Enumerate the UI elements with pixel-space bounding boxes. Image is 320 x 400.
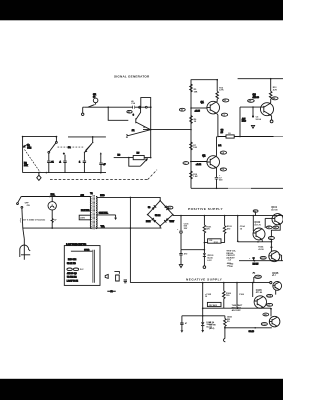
wire: amp bias chain vertical: [190, 80, 192, 189]
diode D102: [201, 316, 214, 330]
transistor Q1A (oscillator): [136, 107, 151, 130]
svg-text:4.7K: 4.7K: [219, 89, 224, 92]
svg-text:35V: 35V: [184, 228, 188, 230]
wire: Q103 collector stub: [270, 242, 272, 251]
label Q101: [271, 206, 278, 211]
svg-text:POSITIVE SUPPLY: POSITIVE SUPPLY: [188, 207, 223, 211]
chassis ground (diamond): [37, 173, 41, 181]
regulator note text: [226, 250, 236, 267]
svg-text:417-80: 417-80: [253, 96, 260, 99]
oval label 2N: [248, 99, 255, 102]
oval label C2b: [267, 303, 273, 306]
resistor R13 (Q3 collector): [269, 79, 277, 103]
wire: jack to osc input: [84, 106, 151, 108]
wire: osc out to amp: [143, 129, 191, 131]
label 117V AC: [20, 218, 54, 223]
capacitor C102: [179, 250, 188, 265]
svg-text:RED: RED: [100, 195, 105, 197]
svg-text:ADJ DIFF: ADJ DIFF: [232, 309, 242, 312]
oval label 64: [272, 97, 278, 100]
wire: feedback loop: [141, 98, 151, 108]
svg-text:230V: 230V: [80, 218, 85, 220]
chassis symbol (open triangle) under C102: [179, 265, 182, 268]
transistor Q102: [253, 228, 265, 240]
node C junction: [150, 129, 152, 131]
node P11 junction: [271, 260, 273, 262]
label R107: [209, 321, 216, 330]
svg-text:+1.32: +1.32: [196, 164, 202, 166]
wire: Q105 collector: [252, 283, 254, 297]
oval label 56b: [266, 226, 272, 229]
wire: emitter return diagonal: [126, 130, 151, 138]
section boundary (dashed): [50, 170, 157, 180]
switch S1B pole: [92, 137, 93, 143]
svg-text:10K: 10K: [24, 165, 28, 167]
bottom letterbox bar: [0, 379, 283, 400]
capacitor C105: [203, 283, 212, 309]
wire: left vertical: [22, 136, 24, 173]
svg-text:56-562 D2: 56-562 D2: [67, 276, 77, 278]
resistor R101: [203, 216, 212, 250]
wire: range net top rail right: [68, 136, 106, 138]
switch SW1: [17, 197, 31, 209]
node N9 junction: [270, 308, 272, 310]
node U junction: [51, 227, 53, 229]
node N6 junction: [237, 307, 239, 309]
node N8 junction: [254, 327, 256, 329]
svg-text:57-27 AB: 57-27 AB: [67, 262, 76, 265]
capacitor C1A: [47, 161, 50, 173]
parts box row 3 (ovals): [67, 268, 84, 271]
node O junction: [217, 136, 219, 138]
oval label C13: [260, 256, 266, 259]
wire: Q1 base: [191, 107, 207, 109]
resistor R5: [190, 84, 198, 93]
node V junction: [130, 197, 132, 199]
node P2 junction: [204, 215, 206, 217]
oval label 17: [183, 162, 189, 165]
wire: Q104 emitter to node N9: [270, 308, 272, 316]
output lead hook: [223, 338, 225, 342]
wire: regulator output rail: [238, 241, 272, 243]
wire: contact drop 4: [100, 152, 102, 162]
svg-text:ON: ON: [27, 205, 31, 207]
svg-text:600Ω: 600Ω: [84, 249, 89, 251]
node Q junction: [216, 188, 218, 190]
svg-text:BLK-YEL: BLK-YEL: [81, 210, 91, 212]
resistor R108: [224, 316, 233, 339]
resistor R14 (lamp dropping): [51, 210, 57, 228]
node S junction: [252, 106, 254, 108]
svg-text:417-70: 417-70: [254, 224, 261, 227]
chassis symbol (open triangle): [251, 125, 254, 128]
node P6 junction: [204, 242, 206, 244]
node A junction: [107, 106, 109, 108]
svg-text:1.8K: 1.8K: [193, 176, 198, 178]
wire: zener common: [181, 249, 204, 251]
node P8 junction: [237, 240, 239, 242]
wire: input branch down: [108, 107, 128, 120]
capacitor C101: [177, 216, 189, 250]
node P7 junction: [204, 249, 206, 251]
zener diode ZD101: [203, 250, 215, 266]
svg-text:6.2V: 6.2V: [207, 260, 212, 262]
wire: lower rail: [182, 315, 225, 317]
wire: R8 feedback: [114, 157, 129, 159]
switch S1A contact: [48, 151, 50, 153]
transistor Q1: [207, 101, 220, 114]
wire: positive rail: [173, 215, 283, 217]
svg-text:+7.85: +7.85: [195, 110, 201, 112]
resistor R106: [223, 283, 232, 309]
output jack J1 (open circle terminal): [82, 107, 85, 115]
bridge diode 4: [164, 218, 169, 223]
icon: wafer: [105, 274, 108, 278]
icon: stack: [124, 280, 127, 283]
transformer T1 core: [93, 195, 94, 229]
switch S1B blade: [85, 143, 92, 152]
oval label C11: [261, 323, 267, 326]
capacitor C108 tick: [253, 272, 262, 282]
svg-text:18K: 18K: [194, 91, 198, 93]
transistor Q103: [269, 251, 280, 262]
svg-text:R-C: R-C: [80, 269, 84, 271]
node P4 junction: [237, 215, 239, 217]
node N2 junction: [223, 282, 225, 284]
wire: Q3 base drop: [239, 107, 241, 136]
transistor Q104: [273, 282, 282, 295]
wire: contact drop 2: [64, 155, 66, 161]
wire: -15V output rail: [225, 327, 272, 329]
potentiometer R9: [129, 156, 151, 167]
wire: range net bottom rail: [23, 172, 106, 174]
svg-text:LAST USED NOT US: LAST USED NOT US: [66, 243, 87, 246]
wire: bottom rail (signal out): [191, 187, 283, 189]
capacitor C1D: [99, 163, 102, 173]
svg-text:150 5W: 150 5W: [209, 325, 216, 327]
potentiometer R1 wiper arrow: [23, 144, 28, 148]
node P10 junction: [254, 260, 256, 262]
capacitor C7: [215, 175, 223, 182]
wire: Q2 emitter down: [216, 168, 218, 189]
svg-text:C2B: C2B: [256, 277, 261, 279]
node H junction: [46, 172, 48, 174]
svg-text:117 V. 50/60 CYCLE AC: 117 V. 50/60 CYCLE AC: [23, 219, 46, 222]
svg-text:(ADJ): (ADJ): [209, 327, 215, 330]
regulator note 2: [232, 304, 243, 312]
svg-text:NF-15: NF-15: [253, 263, 260, 265]
pot R102 adjust box: [208, 239, 221, 244]
label C4: [131, 100, 136, 105]
capacitor C107: [180, 316, 188, 330]
wire: top rail right: [238, 78, 283, 80]
node N10 junction: [224, 327, 226, 329]
node B junction: [150, 106, 152, 108]
terminal circle (osc node): [139, 106, 141, 108]
icon: bracket: [114, 272, 119, 281]
parts list box: [64, 246, 100, 286]
wire: adjust link: [204, 242, 224, 244]
bridge rectifier D1 frame: [148, 201, 173, 226]
capacitor C1C: [83, 161, 86, 173]
svg-text:WHT: WHT: [170, 221, 175, 223]
oval label 62: [268, 237, 274, 240]
svg-text:50-54: 50-54: [256, 118, 262, 121]
diode D103 tick: [253, 210, 258, 216]
chassis ground arrow (D102): [201, 330, 204, 333]
node K junction: [216, 79, 218, 81]
oval label C1: [221, 113, 227, 116]
svg-text:GRN-YEL: GRN-YEL: [99, 213, 109, 215]
node N1 junction: [202, 282, 204, 284]
wire: negative rail: [130, 282, 272, 284]
node F junction: [100, 172, 102, 174]
svg-text:P.U: P.U: [168, 207, 172, 209]
terminal circle (zener): [203, 266, 206, 269]
node E junction: [92, 136, 94, 138]
node N5 junction: [202, 307, 204, 309]
capacitor C103: [249, 257, 255, 260]
node M junction: [190, 129, 192, 131]
wire: top rail left: [191, 79, 218, 81]
wire: zener drop to lower rail: [202, 308, 204, 316]
svg-text:417-80: 417-80: [256, 291, 263, 294]
node I junction: [128, 157, 130, 159]
lamp V1: [93, 98, 98, 105]
parts box inner line: [71, 250, 92, 252]
resistor R11 (top, to Q1 collector): [216, 80, 224, 102]
node J junction: [150, 157, 152, 159]
svg-text:C106: C106: [239, 294, 245, 296]
label Q105: [256, 289, 263, 294]
transistor Q106: [269, 316, 280, 327]
wire: adjust row: [203, 307, 271, 309]
wire: AC line top: [21, 196, 90, 198]
parts box bus bar: [93, 250, 95, 283]
svg-text:NEGATIVE SUPPLY: NEGATIVE SUPPLY: [186, 277, 223, 281]
switch blade SA: [88, 105, 95, 108]
oval label PU: [167, 206, 173, 209]
node D junction: [56, 136, 58, 138]
svg-text:60M: 60M: [27, 147, 31, 149]
svg-text:-15V ADJ: -15V ADJ: [208, 304, 217, 307]
wire: contact drop 3: [83, 152, 85, 161]
wire: DC feed vertical: [129, 197, 131, 282]
transistor Q3: [261, 103, 274, 116]
bridge corner dots: [147, 200, 174, 227]
capacitor C4 (inline on wire): [133, 106, 135, 109]
sense resistor R105 marks: [227, 258, 232, 267]
capacitor C106: [237, 283, 245, 309]
svg-text:417-90 Q6: 417-90 Q6: [67, 272, 78, 275]
mechanical coupling (dashed diagonal): [25, 150, 41, 173]
transistor Q101: [272, 214, 283, 225]
resistor R10: [190, 171, 198, 179]
wire: osc out vertical: [150, 107, 152, 157]
node N4 junction: [252, 282, 254, 284]
wire: secondary center tap GRN-YEL: [96, 214, 116, 216]
node N7 junction: [202, 315, 204, 317]
svg-text:— 12 —: — 12 —: [108, 291, 116, 293]
test point TP1 (open circle): [270, 120, 273, 123]
oval label 2Nb: [273, 226, 279, 229]
switch S1A blade: [49, 143, 55, 151]
wire: Q102 emitter stub: [261, 240, 263, 242]
node P3 junction: [224, 215, 226, 217]
node N3 junction: [236, 282, 238, 284]
wire: Q2 base: [191, 161, 207, 163]
switch S1A pole: [56, 137, 58, 144]
transformer T1 primary winding: [90, 197, 91, 229]
oval label 21: [127, 110, 132, 113]
node T junction: [49, 196, 51, 198]
wire: mid rail: [218, 136, 283, 138]
svg-text:SIGNAL GENERATOR: SIGNAL GENERATOR: [114, 75, 150, 79]
node P1 junction: [180, 215, 182, 217]
terminal circle (loop tap): [145, 106, 147, 108]
node R junction: [270, 78, 272, 80]
wire: Q101 emitter: [271, 224, 280, 242]
oval label C12: [267, 294, 273, 297]
oval label 60: [223, 99, 229, 102]
node P9 junction: [257, 241, 259, 243]
node W junction: [130, 227, 132, 229]
oval label C8: [220, 168, 226, 171]
pilot lamp PL1: [48, 197, 56, 211]
wire: switch to plug: [21, 208, 24, 228]
AC plug P1: [20, 228, 30, 260]
svg-text:41-50: 41-50: [258, 248, 264, 251]
resistor R7: [190, 142, 198, 150]
svg-text:LAST 50-54: LAST 50-54: [67, 279, 79, 282]
node P5 junction: [253, 215, 255, 217]
chassis ground arrow (center tap): [114, 215, 117, 220]
component box C6 (inline): [226, 133, 234, 138]
wire: bridge bottom stub: [159, 226, 161, 228]
wire: Q102 collector: [264, 218, 266, 228]
svg-text:4.7K: 4.7K: [273, 89, 278, 92]
mechanical coupling (dashed horizontal): [58, 146, 85, 148]
node L junction (Q1 base): [190, 107, 192, 109]
bridge diode 1: [151, 205, 156, 210]
transistor Q105: [254, 296, 266, 308]
oval label 18: [179, 108, 185, 111]
node G junction: [38, 172, 40, 174]
wire: Q3 emitter: [270, 115, 271, 120]
node P junction: [239, 136, 241, 138]
svg-text:57-24: 57-24: [155, 214, 161, 217]
bridge diode 2: [164, 205, 169, 210]
svg-text:R102: R102: [214, 242, 218, 244]
svg-text:R16 C14: R16 C14: [68, 258, 77, 261]
svg-text:1%: 1%: [227, 265, 230, 267]
label R104: [258, 245, 264, 250]
top letterbox bar: [0, 0, 283, 20]
label Q104: [272, 272, 279, 277]
chassis ground arrow (C107): [181, 330, 184, 333]
resistor R6: [190, 116, 197, 124]
svg-text:10K: 10K: [193, 147, 197, 149]
transistor Q2: [207, 156, 220, 169]
wire: Q2 collector up: [215, 137, 217, 157]
svg-text:417-90: 417-90: [271, 209, 278, 212]
node P12 junction: [271, 241, 273, 243]
capacitor C104: [238, 216, 246, 242]
transformer T1 secondary winding: [96, 197, 97, 229]
node N junction (Q2 base): [190, 161, 192, 163]
wire: Q102 base from divider: [252, 216, 254, 232]
oval label 2Nd: [263, 313, 269, 316]
node D0 junction: [22, 136, 24, 138]
wire: Q103 emitter drop: [279, 254, 282, 261]
oval label C4b: [220, 151, 226, 154]
svg-text:80-18: 80-18: [249, 331, 255, 333]
label PL1: [50, 194, 55, 196]
resistor R103: [223, 216, 232, 243]
wire: secondary RED: [96, 197, 160, 201]
scan fade on output rail: [228, 187, 251, 190]
svg-text:BRN: BRN: [146, 221, 151, 223]
wire: Q1 emitter down: [217, 113, 218, 136]
wire: Q3 base: [240, 106, 261, 108]
pot R107 adjust box: [207, 302, 221, 306]
wire: range net top rail left: [23, 136, 57, 138]
wire: Q101 base: [265, 217, 273, 219]
wire: +15V output line: [239, 260, 283, 262]
capacitor C1B: [63, 161, 66, 173]
scan fade on mid rail: [274, 135, 284, 138]
wire: contact drop 1: [48, 153, 50, 160]
wire: AC line bottom: [23, 227, 162, 229]
terminal circle on rail: [270, 282, 272, 284]
bridge diode 3: [152, 218, 157, 223]
label Q102: [254, 221, 261, 226]
thermistor C5: [252, 107, 262, 121]
tap box 115/230V: [79, 215, 90, 220]
